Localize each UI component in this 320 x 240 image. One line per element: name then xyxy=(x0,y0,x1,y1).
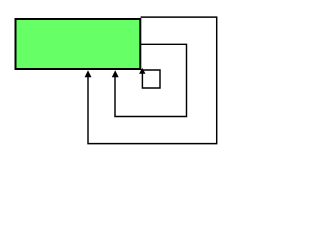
middle loop arrowhead xyxy=(112,70,119,77)
outer loop arrowhead xyxy=(85,70,92,77)
inner loop arrowhead xyxy=(139,68,145,74)
green box xyxy=(16,19,141,69)
inner loop wire xyxy=(141,70,160,88)
middle loop wire xyxy=(115,44,187,116)
outer loop wire xyxy=(88,17,217,144)
